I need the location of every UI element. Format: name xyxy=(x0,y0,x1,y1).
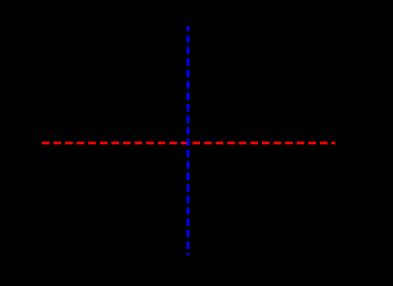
blue dashed vertical line xyxy=(187,26,190,255)
red dashed horizontal line xyxy=(42,142,335,145)
